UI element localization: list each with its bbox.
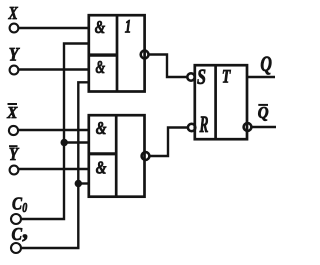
svg-text:0: 0 [22,201,27,216]
svg-text:&: & [96,57,106,77]
svg-text:&: & [95,17,105,37]
svg-text:R: R [199,112,209,137]
svg-text:X: X [8,3,19,23]
svg-text:Q: Q [260,51,272,76]
svg-text:T: T [222,67,232,88]
svg-text:C: C [12,194,23,214]
svg-text:S: S [197,64,206,89]
svg-text:&: & [96,158,107,178]
svg-text:,: , [22,218,29,243]
svg-text:X: X [6,103,17,122]
svg-text:C: C [12,224,23,244]
svg-text:1: 1 [125,17,132,38]
svg-text:&: & [96,118,107,138]
